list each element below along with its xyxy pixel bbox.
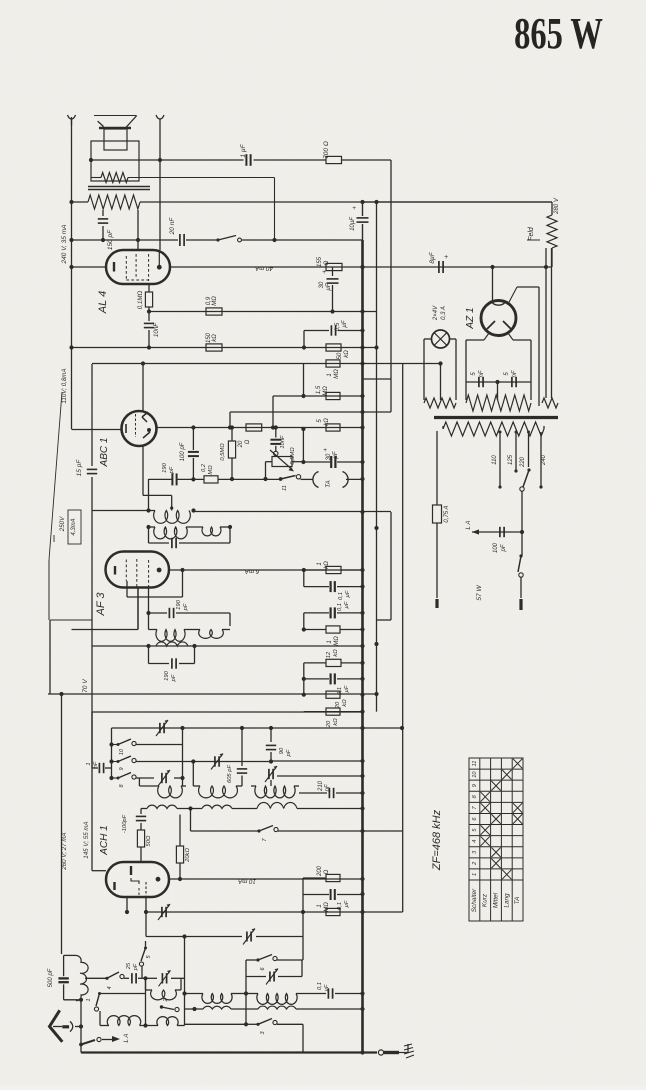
svg-text:pF: pF [325,784,331,792]
lamp box [424,338,432,340]
svg-text:pF: pF [183,603,189,611]
switch 4 [105,977,108,980]
svg-text:µF: µF [342,320,348,327]
IF2 cap line y613 [126,581,128,597]
svg-text:1: 1 [86,762,92,765]
svg-text:12: 12 [326,651,332,658]
IF3 tuning cap [148,646,150,664]
wire x148 up [148,479,150,511]
ACH bottom stubs [126,898,128,912]
svg-text:L A: L A [123,1034,130,1043]
wire x61 drop to antenna unit [61,694,63,954]
wire y427 anode line ABC1 [157,427,363,429]
wire AZ1 anode top [492,267,494,301]
capacitor 100pF osc [140,809,142,815]
svg-text:µF: µF [326,283,332,290]
svg-text:110V; 0,8mA: 110V; 0,8mA [61,368,68,403]
svg-text:4,3mA: 4,3mA [71,518,77,535]
svg-text:TA: TA [514,897,521,905]
wire x145 drop [145,978,147,1025]
heater center tap [497,382,499,400]
node dots on left spine [69,200,73,204]
row y993 left [100,993,147,995]
capacitor 10nF [148,312,150,322]
capacitor 0.5uF [302,345,306,349]
wire ABC1 cathode path [143,494,172,496]
vertical x391 box A [390,379,392,412]
svg-text:0,5MΩ: 0,5MΩ [220,443,226,461]
svg-text:145 V; 55 mA: 145 V; 55 mA [83,821,90,858]
svg-text:µF: µF [345,590,351,597]
antenna unit left + 500pF [63,955,65,976]
switch 11 [279,477,283,481]
wire AF3 plate y570 [169,569,363,571]
svg-text:kΩ: kΩ [324,418,330,426]
wire y266 to rectifier [437,266,552,268]
wire x182 drop [182,728,184,786]
wire secondary drop x274 [274,178,276,241]
svg-text:kΩ: kΩ [333,649,339,657]
svg-text:Ω: Ω [245,439,251,444]
wire y776 to bus [277,775,363,777]
wire y912 right corner [363,911,403,913]
capacitor 30uF second [302,461,304,463]
wire x303 drop to 396 [303,364,305,397]
wire y761 to bus [271,760,363,762]
resistor 1k [304,569,326,571]
wire y311 screen line [149,311,377,313]
wire y160 from transformer [91,159,244,161]
resistor 1M AF [326,626,340,633]
trimmer below 90pF [268,769,270,779]
wire y412 [230,411,363,413]
wire ABC1 top to y363 [142,364,144,412]
wire y363 thin [92,363,440,365]
svg-text:kΩ: kΩ [333,718,339,726]
svg-text:kΩ: kΩ [212,334,218,342]
transformer secondary winding [91,177,101,179]
svg-text:0,1: 0,1 [337,603,343,611]
svg-text:0,1: 0,1 [317,982,323,990]
potentiometer 0.5M volume [274,451,278,455]
wire tap x138 [137,210,139,251]
capacitor 20nF series [179,234,181,246]
wire y348 line [72,347,377,349]
wire ACH screen line y712 [92,711,363,713]
resistor 12k [304,662,326,664]
capacitor 90pF [270,728,272,742]
IF3 output coil row y646 [92,645,363,647]
svg-text:MΩ: MΩ [324,902,330,912]
table X marks [481,792,490,801]
svg-text:240 V, 35 mA: 240 V, 35 mA [61,225,68,265]
svg-text:AF 3: AF 3 [95,592,107,617]
svg-text:4: 4 [472,840,478,843]
tube ACH1 [106,862,169,897]
wire y202 plate supply to Feld [72,201,89,203]
capacitor 10uF [360,200,364,204]
main bus y240 [72,239,179,241]
TA jack [313,472,319,488]
svg-text:pF: pF [169,466,175,474]
svg-text:MΩ: MΩ [323,386,329,396]
field coil Feld [551,202,553,215]
pot left lead [266,461,273,463]
svg-text:110: 110 [492,455,498,465]
svg-text:kΩ: kΩ [324,561,330,569]
svg-text:0,75 A: 0,75 A [444,505,450,522]
svg-text:155: 155 [317,256,323,267]
output transformer box [91,141,139,181]
resistor 700 Ohm [326,156,342,163]
svg-text:0,2: 0,2 [201,463,207,472]
switch 3 [185,1023,247,1025]
trimmer y912 [161,907,163,917]
svg-text:µF: µF [344,900,350,907]
mains switch chain [521,491,523,532]
wire y479 line right [218,478,281,480]
vertical x402 [402,364,404,913]
primary taps [499,432,501,487]
svg-text:+: + [444,254,448,261]
svg-text:11: 11 [282,485,288,491]
voltage selector switch [520,487,524,491]
wire coil3 to 210pF [299,792,327,794]
antenna unit top [64,954,76,956]
transformer primary winding [88,195,140,209]
tube ABC1 [122,411,157,446]
mixer coil row 2 [185,1008,204,1010]
lamp tap from y363 [440,364,442,401]
svg-text:TA: TA [325,480,332,487]
svg-text:Kurz: Kurz [482,893,489,907]
svg-text:100: 100 [493,542,499,553]
resistor 155 Ohm [326,263,342,270]
svg-text:nF: nF [512,370,518,377]
svg-text:MΩ: MΩ [334,636,340,646]
svg-text:57 W: 57 W [476,585,483,601]
wire ABC1 grid [72,429,122,431]
vertical x391 box B [390,512,392,620]
svg-text:500 pF: 500 pF [48,968,54,987]
wire y978 row [85,977,107,979]
resistor 1M mid [326,360,340,367]
svg-text:50Ω: 50Ω [146,835,152,846]
svg-text:0,1MΩ: 0,1MΩ [137,290,144,309]
svg-text:125: 125 [508,454,514,465]
svg-text:1: 1 [317,904,323,907]
svg-text:µF: µF [324,984,330,991]
svg-text:50: 50 [337,352,343,359]
wire ALL4 grid y267 left [72,266,107,268]
wire grid cap drop x160 [159,125,161,250]
svg-text:0,3 A: 0,3 A [441,306,447,320]
antenna MW coil [145,978,147,990]
capacitor 100pF [192,428,194,451]
resistor 0.1M under tube [148,283,150,292]
capacitor 1uF [245,154,247,166]
svg-text:20 nF: 20 nF [169,217,176,236]
capacitor 605pF padder [241,728,243,766]
resistor 50 Ohm [137,830,144,847]
capacitor 0.1uF a [303,570,305,587]
transformer core [88,186,150,188]
svg-text:Lang: Lang [503,893,510,908]
svg-text:2: 2 [163,998,169,1002]
capacitor 1nF [91,712,93,768]
resistor 20 Ohm [246,424,262,431]
switch mains [519,554,522,557]
svg-text:nF: nF [479,370,485,377]
svg-text:15 pF: 15 pF [76,459,83,477]
wire 70V bus y694 [48,693,377,695]
svg-text:90: 90 [279,747,285,754]
switch 10 [112,744,119,746]
svg-text:1: 1 [317,562,323,565]
svg-text:240: 240 [541,454,547,466]
capacitor 30uF + [360,265,364,269]
svg-text:10: 10 [119,748,125,755]
resistor 0.9M [206,308,222,315]
wire left spine x71 [71,117,73,429]
svg-text:260 V; 27 mA: 260 V; 27 mA [61,832,68,870]
svg-text:Ω: Ω [324,260,330,265]
svg-text:10 mA: 10 mA [238,878,256,885]
switch 2 [160,1005,163,1008]
svg-text:L A: L A [465,521,472,530]
wire 20k to y879 [179,863,181,879]
mains plug pin left [435,599,438,608]
capacitor 100pF mains [499,527,501,537]
switch 9 [112,761,119,763]
svg-text:8µF: 8µF [429,251,436,263]
node AZ1 feed [490,265,494,269]
svg-text:30: 30 [319,281,325,288]
svg-text:280 V: 280 V [554,197,560,215]
osc coil row 2 [141,808,147,810]
wire to x391 drop [342,159,392,161]
resistor 150k [206,344,222,351]
capacitor 0.1uF antenna [327,988,329,998]
svg-text:9: 9 [119,767,125,770]
svg-text:605 pF: 605 pF [227,765,233,784]
trimmer antenna [146,977,158,979]
svg-text:70 V: 70 V [82,679,89,693]
speaker cone [94,115,136,117]
trimmer osc row 9 [214,756,216,766]
svg-text:30: 30 [326,453,332,460]
secondary HT leads [545,248,547,398]
node 150pF [101,238,105,242]
bus junction dots [360,265,364,269]
svg-text:25: 25 [126,962,132,970]
svg-text:pF: pF [286,749,292,757]
wire left inner spine x92 [91,364,93,466]
IF2 coil row [149,629,158,631]
svg-text:Feld: Feld [528,226,535,241]
mixer coil row 1 [185,993,204,995]
antenna unit bottom [64,999,81,1001]
resistor 1.5M [326,392,340,399]
switch 5 [144,947,147,950]
heater line 5nF caps [466,381,531,383]
switch 8 [112,777,119,779]
switch 6 [246,959,258,961]
wire y728 line [112,727,403,729]
svg-text:0,1: 0,1 [338,592,344,600]
antenna terminal mid [156,115,164,119]
AZ1 filament box [484,333,489,340]
svg-text:1 µF: 1 µF [240,143,247,157]
trimmer osc row 8 [161,773,163,783]
capacitor 0.1uF bottom a [303,894,329,896]
svg-text:200: 200 [317,865,323,877]
svg-text:190: 190 [176,599,182,609]
svg-text:20: 20 [326,720,332,728]
svg-text:865 W: 865 W [514,9,603,58]
svg-text:210: 210 [318,780,324,792]
svg-text:1,5: 1,5 [316,385,322,394]
row3 y1025 LW coils [100,1025,109,1027]
AF3 bottom stubs [137,587,139,630]
LA arrow line [472,531,522,533]
svg-text:kΩ: kΩ [342,699,348,707]
svg-text:9: 9 [472,784,478,787]
wire AF3 plate drop [182,570,184,597]
wire 70V drop [49,392,62,560]
tube AL4 [106,250,170,284]
capacitor 200 Ohm line [303,877,326,879]
svg-text:kΩ: kΩ [344,350,350,358]
wire y936 line [146,936,242,938]
capacitor 150pF tap [102,210,104,216]
svg-text:10nF: 10nF [153,322,160,337]
antenna symbol [50,1010,63,1042]
wire ACH1 grid entry [92,870,106,872]
resistor 0.2M [204,476,218,483]
svg-text:Ω: Ω [324,869,330,874]
svg-text:20: 20 [238,440,244,448]
svg-text:10µF: 10µF [350,217,356,231]
wire y912 line [146,911,363,913]
wire left x111 switches [111,728,113,778]
svg-text:µF: µF [344,685,350,692]
svg-text:pF: pF [171,674,177,682]
primary tap 220 [528,432,530,467]
svg-text:Mittel: Mittel [493,892,500,908]
svg-text:700 Ω: 700 Ω [323,141,330,159]
capacitor 25pF [131,973,133,983]
svg-text:+: + [352,205,356,212]
supply line y202 right [363,201,553,203]
capacitor 8uF electrolytic [438,261,440,273]
capacitor C 15pF in spine [87,468,97,470]
svg-text:1: 1 [327,640,333,643]
svg-text:pF: pF [133,963,139,971]
svg-text:µF: µF [344,601,350,608]
IF1 secondary tuning cap [148,527,150,543]
svg-text:100 pF: 100 pF [180,442,186,461]
ground symbol [407,1044,409,1053]
mains plug pin right [519,599,522,610]
svg-text:MΩ: MΩ [212,296,218,306]
wire y510 line [92,510,155,512]
wire ALL4 plate y267 right [169,266,437,268]
svg-text:250V: 250V [59,516,66,532]
switch 1 [98,992,101,995]
IF1 primary coil [154,511,191,524]
svg-text:ACH 1: ACH 1 [99,825,110,855]
svg-text:MΩ: MΩ [334,369,340,379]
capacitor 10nF coupling [275,428,277,438]
wire y396 line [273,395,363,397]
capacitor 190pF series [149,478,173,480]
osc coil row 1 [138,778,140,786]
mains left lead + fuse [436,431,438,505]
wire corner x50 to 70V bus [49,620,51,694]
resistor 1M bottom [326,908,340,915]
switch 7 line [190,809,192,832]
svg-text:4: 4 [107,986,113,989]
svg-text:10: 10 [472,771,478,778]
antenna coil [76,955,88,1000]
resistor 20k a [303,679,305,695]
svg-text:6 mA: 6 mA [245,568,259,575]
dial lamp [432,330,450,348]
LA switch arrow [79,1043,83,1047]
svg-text:190: 190 [164,670,170,680]
svg-text:pF: pF [501,544,507,552]
capacitor 0.1uF c [304,678,329,680]
svg-text:nF: nF [93,761,99,768]
tube AZ1 [481,301,516,336]
mains primary winding [443,422,544,436]
resistor 5k [326,424,340,431]
svg-text:MΩ: MΩ [208,465,214,475]
antenna terminal [53,1026,62,1028]
svg-text:ZF=468 kHz: ZF=468 kHz [431,809,443,871]
svg-text:1: 1 [327,373,333,376]
transformer heater windings [424,398,456,408]
svg-text:10nF: 10nF [280,435,286,449]
resistor 20k b [304,711,363,713]
svg-text:220: 220 [520,456,526,468]
antenna drop to bus [80,1000,82,1053]
antenna terminal left [68,115,76,119]
svg-text:AZ 1: AZ 1 [465,307,476,329]
svg-text:Schalter: Schalter [471,888,478,912]
svg-text:µF: µF [333,451,339,458]
capacitor 0.1uF b [304,612,329,614]
svg-text:11: 11 [472,761,478,767]
tube AF3 [106,552,170,588]
svg-text:-100pF: -100pF [122,814,128,833]
ground bus bottom [81,1051,377,1053]
main HT bus thick [361,240,364,1053]
IF1 secondary row [149,526,156,528]
wire x303 drop [302,912,304,960]
wire ACH plate y879 [169,878,363,880]
svg-text:40 mA: 40 mA [255,265,273,272]
wire AF3 grid line y629 [72,629,139,631]
wire AZ1 second anode [508,287,517,304]
svg-text:+: + [323,447,327,454]
vertical x376 [376,202,378,712]
resistor 50k [326,344,341,351]
resistor 0.5M grid leak [231,428,233,442]
wire y512 long to boxB [194,511,392,513]
wire x184 drop [184,937,186,1026]
